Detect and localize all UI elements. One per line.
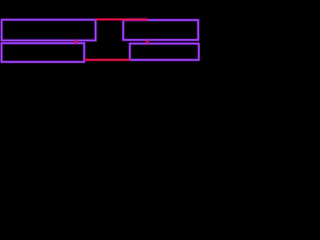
wire W1: U1 top-right to U2 top bbox=[96, 18, 148, 20]
block U3 (bottom-left box) bbox=[2, 43, 85, 62]
wire W2: U2 bottom to U4 top bbox=[146, 40, 148, 44]
wire W4: U3 right to U4 bottom-left bbox=[84, 59, 130, 61]
block U2 (top-right box) bbox=[123, 20, 198, 40]
block U4 (bottom-right box) bbox=[130, 44, 199, 60]
block U1 (top-left box) bbox=[2, 20, 96, 41]
wire W3: U1 bottom to U3 top bbox=[75, 40, 77, 44]
